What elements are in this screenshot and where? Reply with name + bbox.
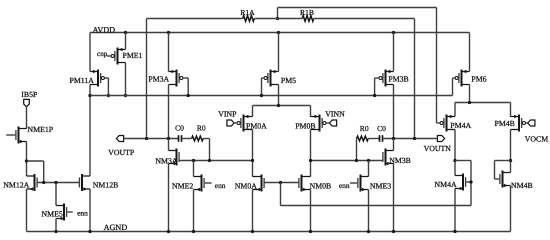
svg-text:R0: R0 (197, 124, 206, 133)
transistor PM4B (495, 115, 526, 132)
transistor NM12A (3, 174, 37, 191)
wire R0 to C0 right (368, 138, 379, 140)
svg-text:NM0A: NM0A (235, 182, 257, 191)
wire cnp stub (107, 55, 111, 57)
wire comp down right (356, 139, 358, 161)
wire PME1 drain down to bias (125, 63, 127, 96)
wire NME5 gate stub (67, 211, 73, 213)
wire NME3 drain up (368, 161, 370, 177)
wire PM5 drain down to tail (278, 85, 280, 106)
label AVDD (93, 25, 116, 34)
svg-text:AGND: AGND (104, 223, 128, 232)
wire PM4A gate from CM sense (437, 122, 441, 124)
port VOCM (525, 120, 548, 144)
wire NM0 gate row (264, 182, 299, 184)
wire PM5 source up to AVDD (278, 33, 280, 72)
port VOUTN (424, 136, 452, 154)
wire PM5 gate tap (262, 78, 265, 96)
transistor NME3 (358, 175, 391, 192)
wire input pair tail (253, 105, 311, 107)
svg-text:VOUTP: VOUTP (108, 148, 135, 157)
svg-text:VINP: VINP (218, 110, 237, 119)
node comp on left node (208, 159, 211, 162)
svg-text:R0: R0 (360, 124, 369, 133)
resistor R1A (240, 8, 255, 21)
port VINP (218, 110, 237, 126)
svg-text:enn: enn (77, 209, 88, 218)
wire between R1A and R1B (254, 18, 302, 20)
resistor R1B (300, 8, 314, 21)
transistor PM0A (237, 115, 267, 132)
wire right node (311, 160, 383, 162)
wire PM11A source up to AVDD (89, 33, 91, 72)
wire PM3B source up to AVDD (393, 33, 395, 72)
node NME1P source branch (25, 159, 28, 162)
node NME5 drain on gate row (54, 181, 57, 184)
wire PM3A source up to AVDD (168, 33, 170, 72)
label cnp (97, 50, 108, 58)
transistor NM3B (383, 149, 411, 166)
wire NM0 gates down to CMFB (280, 183, 282, 206)
port IB5P (21, 90, 38, 107)
wire comp down left (209, 139, 211, 161)
wire NM12A source to AGND (26, 189, 28, 232)
transistor NM12B (79, 174, 118, 191)
wire NM4A diode link (455, 160, 471, 162)
port VOUTP (108, 136, 135, 157)
transistor PM3A (148, 70, 183, 87)
wire NM4A gate tap (466, 181, 471, 183)
node PM4B drain link (509, 159, 512, 162)
svg-text:VOCM: VOCM (525, 135, 548, 144)
wire NM12B source to AGND (89, 189, 91, 232)
wire diode link vertical (43, 161, 45, 183)
wire PME1 source up to AVDD (125, 33, 127, 50)
resistor R0 right (357, 124, 369, 141)
transistor NME5 (42, 204, 67, 221)
svg-text:PM4B: PM4B (495, 119, 515, 128)
wire CMFB horizontal (281, 205, 472, 207)
node PM3B source on AVDD (392, 31, 395, 34)
wire tail down to PM4A source (454, 103, 456, 117)
wire NM0A source down (252, 190, 254, 232)
node NME3 drain on right node (367, 159, 370, 162)
transistor PM4A (440, 115, 471, 132)
port VINN (325, 110, 345, 126)
transistor PM11A (70, 70, 105, 87)
wire NM4B diode link (495, 161, 511, 180)
node R1A/R1B midpoint (276, 17, 279, 20)
svg-text:NM4A: NM4A (435, 180, 457, 189)
wire NM3A drain up to VOUTP (168, 139, 170, 151)
node VOUTN sense (413, 137, 416, 140)
node PM11A gate on bias wire (107, 94, 110, 97)
wire PM3B drain down to VOUTN (393, 85, 395, 139)
transistor NM4B (500, 171, 533, 190)
svg-text:VOUTN: VOUTN (424, 144, 452, 153)
label enn NME3 (339, 181, 350, 190)
wire PM6 gate tap to bias end (453, 78, 456, 96)
wire NM4A source down (454, 189, 456, 232)
transistor NME2 (172, 175, 204, 192)
transistor NM0B (299, 175, 331, 192)
svg-text:PM3A: PM3A (148, 75, 169, 84)
label enn NME5 (77, 209, 88, 218)
node comp on right node (355, 159, 358, 162)
AVDD rail (90, 32, 470, 34)
svg-text:NM3B: NM3B (389, 156, 411, 165)
svg-text:NME5: NME5 (42, 210, 63, 219)
svg-text:C0: C0 (377, 124, 386, 133)
label AGND (104, 223, 128, 232)
svg-text:NM12B: NM12B (93, 181, 119, 190)
wire top CM-sense horizontal (278, 7, 437, 9)
node NM0 gate branch (279, 181, 282, 184)
node PME1 drain on bias wire (124, 94, 127, 97)
wire NME1P source down to NM12A drain (26, 142, 28, 177)
node NM12B source on AGND (88, 230, 91, 233)
node VOUTP sense (145, 137, 148, 140)
wire VOUTP sense down (146, 19, 148, 139)
svg-text:PM0B: PM0B (295, 121, 315, 130)
svg-text:PM4A: PM4A (450, 121, 471, 130)
node diode link on gate row (42, 181, 45, 184)
svg-text:NME2: NME2 (172, 182, 193, 191)
node NM0A source on AGND (251, 230, 254, 233)
node PM3A gate on bias wire (187, 94, 190, 97)
wire NME3 source down (368, 190, 370, 232)
wire resistor row right (314, 18, 415, 20)
svg-text:NME1P: NME1P (28, 125, 54, 134)
svg-text:NM4B: NM4B (511, 181, 533, 190)
wire PM6 drain down to PM4 tail (469, 85, 471, 103)
wire C0 to R0 left (182, 138, 192, 140)
wire NME2 drain up (193, 161, 195, 177)
wire NM4B source down (510, 186, 512, 232)
svg-text:R1B: R1B (300, 8, 314, 17)
wire PM3A gate tap (183, 78, 188, 96)
svg-text:NM3A: NM3A (155, 156, 177, 165)
wire NME5 source down (55, 219, 57, 232)
wire PM3B gate tap (375, 78, 379, 96)
wire VOUTP (124, 138, 179, 140)
svg-text:PM0A: PM0A (246, 121, 267, 130)
wire PM11A gate tap (105, 78, 109, 96)
transistor PM3B (379, 70, 409, 87)
AGND rail (27, 231, 511, 233)
node PM3A source on AVDD (167, 31, 170, 34)
transistor NM0A (235, 175, 264, 192)
wire left node (179, 160, 252, 162)
wire NM3B source down to AGND (393, 164, 395, 232)
wire PM11A drain to NM12B drain (89, 96, 91, 177)
wire NME2 source down (193, 190, 195, 232)
node PM3B gate on bias wire (373, 94, 376, 97)
transistor NM4A (435, 174, 466, 191)
wire R1A/R1B midpoint up (277, 8, 279, 19)
svg-text:R1A: R1A (240, 8, 255, 17)
svg-text:NME3: NME3 (370, 182, 391, 191)
svg-text:PM5: PM5 (281, 76, 296, 85)
node PM6 drain on PM4 tail (468, 101, 471, 104)
wire PM4B gate to VOCM (526, 122, 528, 124)
resistor R0 left (192, 124, 206, 141)
transistor PM6 (455, 70, 487, 87)
p-bias wire (90, 95, 453, 97)
wire NM3B drain up to VOUTN (393, 139, 395, 151)
wire NM4A gate vertical (470, 161, 472, 206)
transistor NME1P (16, 125, 54, 143)
svg-text:PM3B: PM3B (388, 75, 408, 84)
wire tail down to PM0A source (252, 106, 254, 117)
wire PM4 tail (455, 102, 511, 104)
wire AVDD right end down to PM6 source (469, 33, 471, 72)
node NM4A source on AGND (453, 230, 456, 233)
node PM0A drain join (251, 159, 254, 162)
svg-text:C0: C0 (175, 124, 184, 133)
node PM5 drain on tail (277, 104, 280, 107)
node PM5 gate on bias wire (260, 94, 263, 97)
wire NME2 gate stub (205, 182, 212, 184)
node NME3 source on AGND (367, 230, 370, 233)
wire tail down to PM4B source (510, 103, 512, 117)
wire PM3A drain down to VOUTP (168, 85, 170, 139)
wire VOUTN sense down (414, 19, 416, 139)
wire NME3 gate stub (350, 182, 357, 184)
wire NM0B source down (310, 190, 312, 232)
svg-text:PM6: PM6 (471, 74, 486, 83)
transistor PM5 (264, 70, 296, 87)
wire PM4B drain down to NM4B (510, 130, 512, 173)
node PM0B drain join (309, 159, 312, 162)
node NM3B source on AGND (392, 230, 395, 233)
wire R0 to corner left (203, 138, 209, 140)
capacitor C0 left (175, 124, 184, 142)
svg-text:IB5P: IB5P (21, 90, 38, 99)
wire NME1P gate stub (6, 134, 15, 136)
node NME2 drain on left node (192, 159, 195, 162)
wire NM3A source down to AGND (168, 164, 170, 232)
capacitor C0 right (377, 124, 386, 142)
wire tail down to PM0B source (310, 106, 312, 117)
wire NME5 drain up (55, 183, 57, 206)
node PM4A drain link (453, 159, 456, 162)
transistor PM0B (295, 115, 326, 132)
wire resistor row left (147, 18, 243, 20)
svg-text:PM11A: PM11A (70, 76, 95, 85)
svg-text:cnp: cnp (97, 50, 108, 58)
transistor NM3A (155, 149, 179, 166)
wire VINP to PM0A gate (234, 122, 237, 124)
node NM0B source on AGND (309, 230, 312, 233)
wire PM0A drain down (252, 130, 254, 177)
transistor PME1 (111, 48, 142, 65)
svg-text:PME1: PME1 (123, 51, 143, 60)
svg-text:NM12A: NM12A (3, 181, 29, 190)
svg-text:enn: enn (339, 181, 350, 190)
wire PM11A drain down to bias (89, 85, 91, 96)
label enn NME2 (215, 181, 226, 190)
node NM3A source on AGND (167, 230, 170, 233)
node bias wire left end (88, 94, 91, 97)
node NME5 source on AGND (54, 230, 57, 233)
wire CM-sense down to PM4A gate (436, 8, 438, 124)
wire IB5P to NME1P drain (26, 107, 28, 129)
wire VINN to PM0B gate (326, 122, 329, 124)
svg-text:AVDD: AVDD (93, 25, 116, 34)
node NME2 source on AGND (192, 230, 195, 233)
node NM4A gate tap (469, 180, 472, 183)
node PME1 source on AVDD (124, 31, 127, 34)
svg-text:enn: enn (215, 181, 226, 190)
wire PM0B drain down (310, 130, 312, 177)
node PM3A drain on VOUTP (167, 137, 170, 140)
svg-text:VINN: VINN (325, 110, 345, 119)
wire NM12 gate row (37, 182, 79, 184)
node PM3B drain on VOUTN (392, 137, 395, 140)
svg-text:NM0B: NM0B (310, 182, 332, 191)
node PM5 source on AVDD (277, 31, 280, 34)
wire C0 to VOUTN port (383, 138, 438, 140)
wire PM4A drain down to NM4A (454, 130, 456, 176)
wire diode link horizontal (27, 160, 44, 162)
